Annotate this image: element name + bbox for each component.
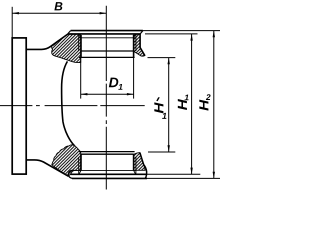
node B label [54, 2, 62, 10]
node H2 label [199, 94, 210, 110]
wire: H2 dimension line [213, 31, 215, 179]
wire: H'1 top extension [148, 57, 176, 59]
wire: bottom bead left outline [68, 170, 74, 178]
node: bottom bead lower line [72, 177, 147, 179]
wire: top mouth chamfer diagonals [79, 34, 136, 38]
node: H1 top arrow [190, 34, 192, 41]
wire: top bore right edge [133, 35, 135, 57]
node: top socket shoulder [81, 50, 134, 52]
wire: D1 dimension line [81, 93, 134, 95]
node: D1 left arrow [81, 93, 88, 95]
node D1 label [109, 78, 123, 90]
node H'1 label [154, 97, 166, 119]
wire: H'1 bottom extension [148, 151, 175, 153]
node: H'1 bottom arrow [168, 145, 170, 152]
wire: bottom mouth chamfer diagonals [79, 170, 136, 174]
node: left flange [12, 38, 26, 174]
wire: horizontal centerline [0, 105, 145, 107]
wire: top face right chamfer [140, 31, 143, 34]
wire: bottom bore left edge [80, 154, 82, 170]
node: top left wall section [52, 34, 81, 62]
wire: H'1 dimension line [168, 58, 170, 152]
node: H'1 top arrow [168, 58, 170, 65]
wire: vertical centerline [105, 6, 107, 190]
wire: upper neck outline [26, 34, 67, 49]
node: B left arrow [12, 12, 19, 14]
node: bottom thread chamfer line [79, 169, 136, 171]
node: bottom socket face line [70, 173, 146, 175]
wire: body left profile [62, 61, 75, 145]
node: top right wall section [134, 34, 145, 56]
wire: H1 bottom extension [147, 173, 201, 175]
node H1 label [178, 95, 189, 110]
node: bottom left wall section [52, 145, 81, 176]
wire: top bore left edge [80, 35, 82, 57]
node: bottom right wall section [134, 153, 145, 171]
node: H2 bottom arrow [213, 172, 215, 179]
wire: B dimension line [12, 12, 106, 14]
wire: H2 top extension [143, 30, 220, 32]
wire: H1 dimension line [191, 34, 193, 174]
wire: lower neck outline [26, 160, 68, 176]
node: bottom socket shoulder [81, 153, 134, 155]
wire: bottom bead right outline [140, 153, 147, 179]
node: top socket face inner line [68, 33, 141, 35]
node: H1 bottom arrow [190, 168, 192, 175]
wire: B extension line [11, 7, 13, 38]
wire: D1 left extension [80, 57, 82, 98]
node: D1 right arrow [127, 93, 134, 95]
node: top cavity line [79, 56, 135, 58]
wire: D1 right extension [133, 57, 135, 98]
wire: H2 bottom extension [147, 177, 220, 179]
wire: bottom thread thin lines [79, 157, 136, 174]
wire: top face left chamfer [68, 31, 71, 34]
node: top thread chamfer line [79, 37, 136, 39]
node: B right arrow [100, 12, 107, 14]
node: bottom cavity line [79, 151, 135, 153]
wire: H1 top extension [145, 33, 198, 35]
wire: bottom bore right edge [133, 154, 135, 170]
wire: top right outer wall [140, 34, 145, 56]
wire: top thread thin lines [79, 35, 136, 52]
node: top socket face outer line [71, 30, 143, 32]
node: H2 top arrow [213, 31, 215, 38]
